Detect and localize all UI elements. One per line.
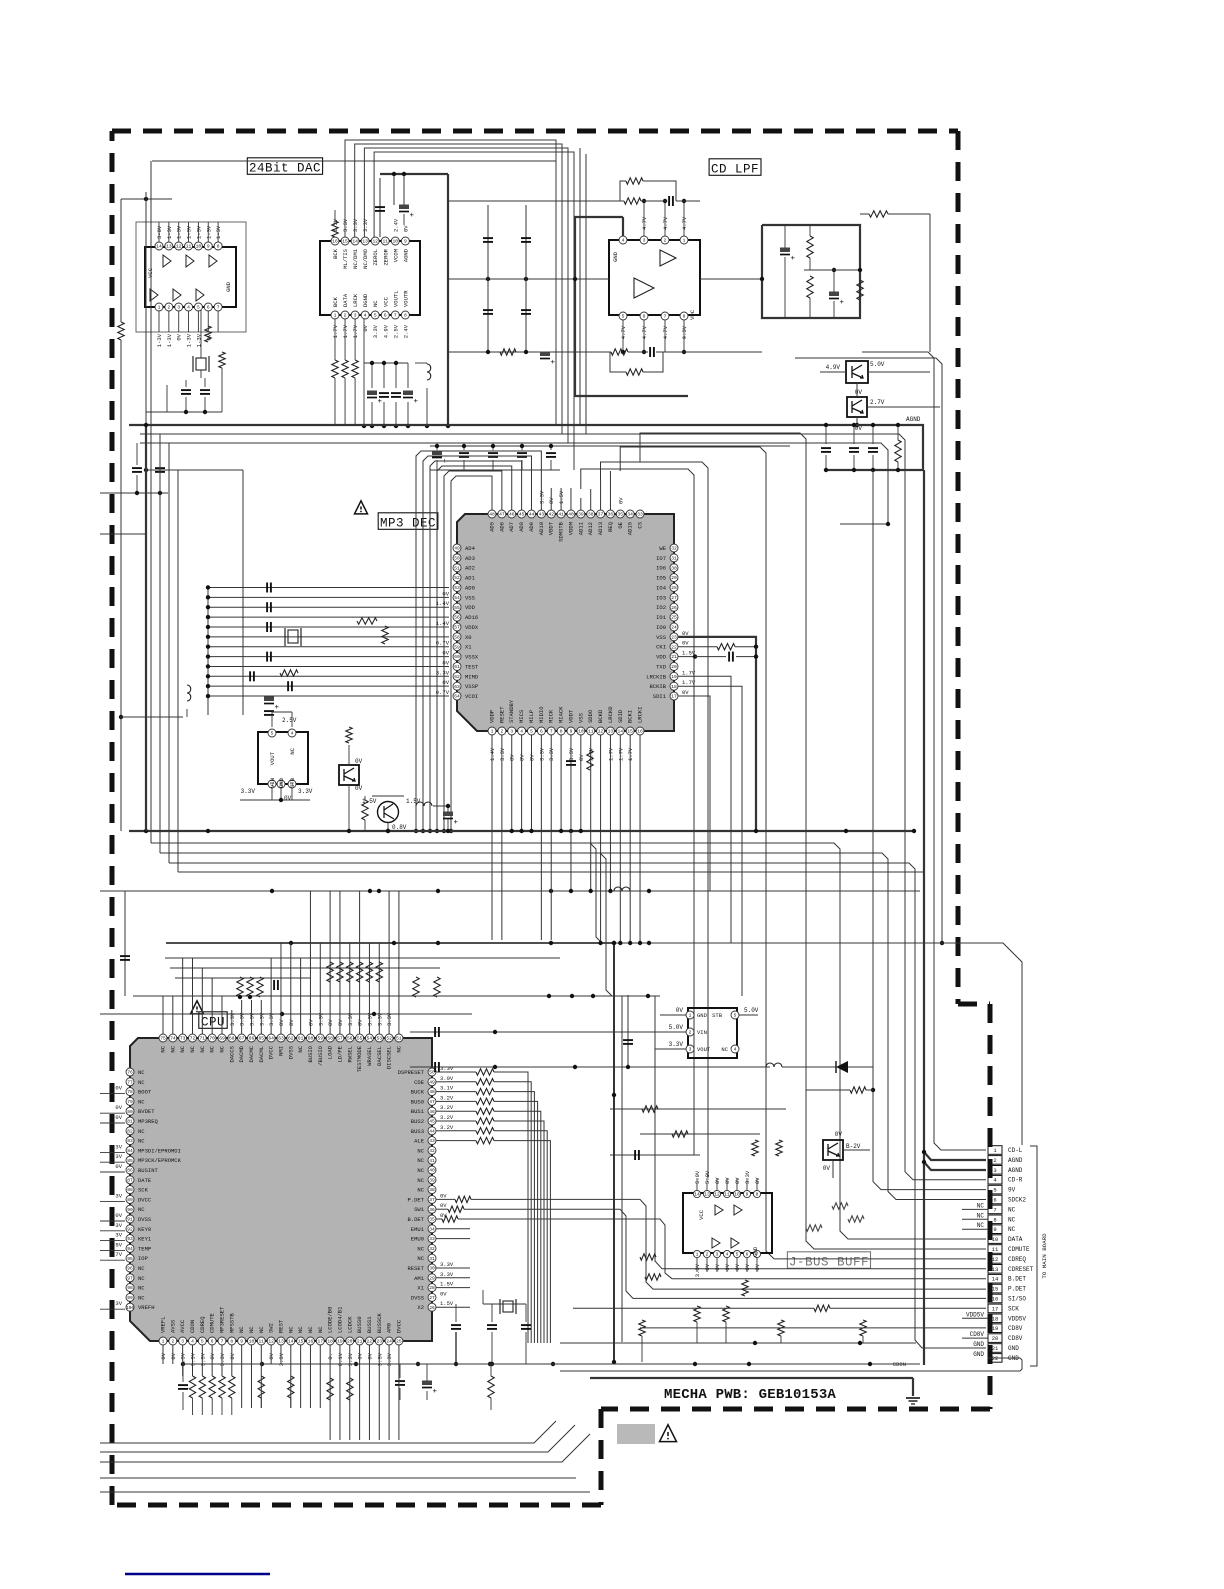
svg-text:5: 5 xyxy=(201,1339,204,1345)
svg-text:0.7V: 0.7V xyxy=(436,640,450,647)
svg-text:AD16: AD16 xyxy=(465,614,478,621)
svg-text:3V: 3V xyxy=(115,1300,122,1307)
svg-text:27: 27 xyxy=(429,1295,435,1301)
svg-text:37: 37 xyxy=(598,512,604,518)
svg-text:DACSEL: DACSEL xyxy=(376,1046,383,1066)
svg-text:IO0: IO0 xyxy=(656,624,666,631)
svg-text:AGND: AGND xyxy=(402,248,409,262)
svg-text:3.3V: 3.3V xyxy=(694,1263,701,1277)
svg-text:AD4: AD4 xyxy=(465,545,476,552)
svg-text:31: 31 xyxy=(671,555,677,561)
svg-text:54: 54 xyxy=(454,595,460,601)
svg-text:5: 5 xyxy=(530,729,533,735)
svg-text:1-3V: 1-3V xyxy=(205,225,212,239)
svg-text:5.0V: 5.0V xyxy=(669,1024,684,1031)
svg-text:DVCC: DVCC xyxy=(395,1319,402,1333)
svg-text:16: 16 xyxy=(308,1339,314,1345)
svg-text:NC: NC xyxy=(179,1045,186,1052)
svg-text:TEMP: TEMP xyxy=(138,1245,151,1252)
svg-text:3-0V: 3-0V xyxy=(156,225,163,239)
svg-text:AD11: AD11 xyxy=(577,521,584,535)
svg-text:ZEROR: ZEROR xyxy=(382,248,389,265)
svg-text:49: 49 xyxy=(429,1079,435,1085)
svg-text:21: 21 xyxy=(357,1339,363,1345)
svg-text:5: 5 xyxy=(374,313,377,319)
svg-text:4.9V: 4.9V xyxy=(382,324,389,338)
svg-text:0V: 0V xyxy=(682,689,689,696)
svg-text:6: 6 xyxy=(211,1339,214,1345)
svg-text:63: 63 xyxy=(278,1036,284,1042)
svg-text:VDDM: VDDM xyxy=(567,522,574,535)
svg-text:VCC: VCC xyxy=(698,1209,705,1220)
svg-text:20: 20 xyxy=(347,1339,353,1345)
svg-text:GND: GND xyxy=(973,1341,984,1348)
svg-text:AD3: AD3 xyxy=(465,555,475,562)
svg-text:13: 13 xyxy=(704,1192,710,1198)
svg-text:1.5V: 1.5V xyxy=(406,798,421,805)
svg-text:VIN: VIN xyxy=(697,1029,707,1036)
svg-text:SCK: SCK xyxy=(1008,1305,1019,1312)
svg-text:20: 20 xyxy=(671,664,677,670)
svg-text:VDDX: VDDX xyxy=(465,624,479,631)
svg-text:GND: GND xyxy=(697,1012,708,1019)
svg-text:0V: 0V xyxy=(115,1104,122,1111)
svg-text:0V: 0V xyxy=(835,1131,843,1138)
svg-text:44: 44 xyxy=(429,1128,435,1134)
svg-text:28: 28 xyxy=(671,585,677,591)
svg-text:22: 22 xyxy=(367,1339,373,1345)
svg-text:CDREQ: CDREQ xyxy=(199,1316,206,1333)
svg-text:1.7V: 1.7V xyxy=(342,324,349,338)
svg-text:3.0V: 3.0V xyxy=(440,1075,454,1082)
svg-text:10: 10 xyxy=(249,1339,255,1345)
svg-text:3V: 3V xyxy=(115,1192,122,1199)
svg-text:12: 12 xyxy=(372,239,378,245)
svg-text:75: 75 xyxy=(160,1036,166,1042)
svg-text:0V: 0V xyxy=(754,1177,761,1184)
svg-text:VDD5V: VDD5V xyxy=(966,1311,984,1318)
svg-text:NC: NC xyxy=(138,1079,145,1086)
svg-text:3.3V: 3.3V xyxy=(440,1271,454,1278)
svg-text:66: 66 xyxy=(249,1036,255,1042)
svg-text:31: 31 xyxy=(429,1256,435,1262)
svg-text:CDON: CDON xyxy=(189,1320,196,1333)
svg-text:46: 46 xyxy=(429,1109,435,1115)
svg-text:NC: NC xyxy=(1008,1226,1016,1233)
svg-text:CDREQ: CDREQ xyxy=(1008,1256,1026,1263)
svg-text:12: 12 xyxy=(992,1256,999,1263)
svg-text:GND: GND xyxy=(278,777,285,788)
svg-text:59: 59 xyxy=(318,1036,324,1042)
svg-text:42: 42 xyxy=(429,1148,435,1154)
svg-text:9: 9 xyxy=(207,244,210,250)
svg-text:4: 4 xyxy=(520,729,523,735)
svg-text:NC: NC xyxy=(138,1128,145,1135)
svg-text:0V: 0V xyxy=(682,630,689,637)
svg-text:0V: 0V xyxy=(724,1263,731,1270)
svg-text:DISCSEL: DISCSEL xyxy=(386,1046,393,1069)
svg-text:NC: NC xyxy=(417,1157,424,1164)
svg-text:3: 3 xyxy=(643,238,646,244)
svg-text:9: 9 xyxy=(404,239,407,245)
svg-text:0V: 0V xyxy=(442,650,449,657)
svg-text:BUSSCK: BUSSCK xyxy=(376,1312,383,1333)
svg-text:NC: NC xyxy=(307,1326,314,1333)
svg-text:14: 14 xyxy=(618,729,624,735)
svg-text:+: + xyxy=(791,255,796,263)
svg-text:NC: NC xyxy=(138,1275,145,1282)
svg-text:KEY0: KEY0 xyxy=(138,1226,151,1233)
svg-text:KEY1: KEY1 xyxy=(138,1236,152,1243)
svg-text:0V: 0V xyxy=(617,497,624,504)
svg-text:BVDET: BVDET xyxy=(138,1108,155,1115)
svg-text:CD8V: CD8V xyxy=(970,1331,985,1338)
svg-text:NC: NC xyxy=(189,1045,196,1052)
svg-text:0V: 0V xyxy=(355,785,363,792)
svg-text:61: 61 xyxy=(298,1036,304,1042)
svg-text:67: 67 xyxy=(239,1036,245,1042)
svg-text:58: 58 xyxy=(327,1036,333,1042)
svg-text:GND: GND xyxy=(1008,1345,1019,1352)
svg-text:82: 82 xyxy=(127,1128,133,1134)
svg-text:21: 21 xyxy=(671,654,677,660)
svg-text:3: 3 xyxy=(181,1339,184,1345)
svg-text:8: 8 xyxy=(683,314,686,320)
svg-text:55: 55 xyxy=(357,1036,363,1042)
svg-text:AVCC: AVCC xyxy=(179,1319,186,1333)
svg-text:83: 83 xyxy=(127,1138,133,1144)
svg-text:VDDT: VDDT xyxy=(548,521,555,535)
svg-text:17: 17 xyxy=(671,694,677,700)
svg-text:SI/SO: SI/SO xyxy=(1008,1296,1026,1303)
svg-text:NC: NC xyxy=(977,1212,985,1219)
svg-text:9: 9 xyxy=(570,729,573,735)
svg-text:VDD: VDD xyxy=(656,654,667,661)
svg-text:2.4V: 2.4V xyxy=(402,324,409,338)
svg-text:24: 24 xyxy=(671,625,677,631)
svg-text:1: 1 xyxy=(162,1339,165,1345)
svg-text:BUS2: BUS2 xyxy=(411,1118,424,1125)
svg-text:IOP: IOP xyxy=(138,1255,148,1262)
svg-text:9: 9 xyxy=(993,1226,996,1233)
svg-text:23: 23 xyxy=(671,634,677,640)
svg-text:VSS: VSS xyxy=(656,634,667,641)
svg-text:45: 45 xyxy=(519,512,525,518)
svg-text:NC: NC xyxy=(199,1045,206,1052)
svg-text:6: 6 xyxy=(746,1252,749,1258)
svg-text:69: 69 xyxy=(219,1036,225,1042)
svg-text:2: 2 xyxy=(706,1252,709,1258)
svg-text:3.3V: 3.3V xyxy=(362,218,369,232)
svg-text:DSPRESET: DSPRESET xyxy=(398,1069,425,1076)
svg-text:AD5: AD5 xyxy=(489,522,496,532)
svg-text:CDMUTE: CDMUTE xyxy=(1008,1246,1030,1253)
svg-text:58: 58 xyxy=(454,634,460,640)
svg-text:1: 1 xyxy=(683,238,686,244)
svg-text:VCOM: VCOM xyxy=(392,249,399,262)
svg-text:2: 2 xyxy=(344,313,347,319)
svg-text:0V: 0V xyxy=(284,795,292,802)
svg-text:11: 11 xyxy=(724,1192,730,1198)
svg-text:8: 8 xyxy=(756,1192,759,1198)
svg-text:13: 13 xyxy=(278,1339,284,1345)
svg-text:LCDCK: LCDCK xyxy=(346,1316,353,1333)
svg-text:BUSS0: BUSS0 xyxy=(356,1316,363,1333)
svg-text:DACMC: DACMC xyxy=(248,1045,255,1062)
svg-text:NC: NC xyxy=(248,1326,255,1333)
svg-text:0V: 0V xyxy=(176,333,183,340)
svg-text:49: 49 xyxy=(454,546,460,552)
svg-text:NC: NC xyxy=(417,1187,424,1194)
svg-text:SDDO: SDDO xyxy=(587,709,594,723)
svg-text:50: 50 xyxy=(429,1070,435,1076)
svg-text:3: 3 xyxy=(716,1252,719,1258)
svg-text:3: 3 xyxy=(993,1167,996,1174)
svg-text:IO7: IO7 xyxy=(656,555,666,562)
svg-text:13: 13 xyxy=(166,244,172,250)
svg-text:NC: NC xyxy=(977,1202,985,1209)
svg-text:AD7: AD7 xyxy=(508,522,515,532)
svg-text:GND: GND xyxy=(225,281,232,292)
svg-text:CD-R: CD-R xyxy=(1008,1177,1023,1184)
svg-text:4.7V: 4.7V xyxy=(662,325,669,339)
svg-text:70: 70 xyxy=(209,1036,215,1042)
svg-text:56: 56 xyxy=(347,1036,353,1042)
svg-text:57: 57 xyxy=(454,625,460,631)
svg-text:2.4V: 2.4V xyxy=(392,218,399,232)
svg-text:WRASEL: WRASEL xyxy=(366,1046,373,1066)
svg-text:VSSX: VSSX xyxy=(465,654,479,661)
svg-text:1: 1 xyxy=(696,1252,699,1258)
svg-text:92: 92 xyxy=(127,1226,133,1232)
svg-text:7: 7 xyxy=(550,729,553,735)
svg-text:47: 47 xyxy=(429,1099,435,1105)
svg-text:SW2: SW2 xyxy=(268,1323,275,1333)
svg-text:AD10: AD10 xyxy=(538,522,545,535)
svg-text:2: 2 xyxy=(664,238,667,244)
svg-text:VOUT: VOUT xyxy=(269,751,276,765)
svg-text:0V: 0V xyxy=(355,758,363,765)
svg-text:10: 10 xyxy=(734,1192,740,1198)
svg-text:MIACK: MIACK xyxy=(558,706,565,723)
svg-text:40: 40 xyxy=(568,512,574,518)
svg-text:33: 33 xyxy=(429,1236,435,1242)
svg-text:+: + xyxy=(840,299,845,307)
svg-text:AD9: AD9 xyxy=(528,522,535,532)
svg-text:80: 80 xyxy=(127,1109,133,1115)
svg-text:6: 6 xyxy=(540,729,543,735)
svg-text:1: 1 xyxy=(491,729,494,735)
svg-text:NC: NC xyxy=(138,1265,145,1272)
svg-text:72: 72 xyxy=(190,1036,196,1042)
svg-text:0V: 0V xyxy=(734,1177,741,1184)
svg-text:GND: GND xyxy=(973,1351,984,1358)
svg-text:5: 5 xyxy=(736,1252,739,1258)
svg-text:57: 57 xyxy=(337,1036,343,1042)
svg-text:DVCC: DVCC xyxy=(268,1045,275,1059)
svg-text:BUSINT: BUSINT xyxy=(138,1167,159,1174)
svg-text:4: 4 xyxy=(187,305,190,311)
svg-text:+: + xyxy=(443,458,448,466)
svg-text:71: 71 xyxy=(200,1036,206,1042)
svg-text:NC: NC xyxy=(395,1045,402,1052)
svg-text:30: 30 xyxy=(671,565,677,571)
svg-text:38: 38 xyxy=(588,512,594,518)
svg-text:NC: NC xyxy=(977,1222,985,1229)
svg-text:32: 32 xyxy=(671,546,677,552)
svg-text:54: 54 xyxy=(367,1036,373,1042)
svg-text:3: 3 xyxy=(354,313,357,319)
svg-text:26: 26 xyxy=(429,1305,435,1311)
svg-text:19: 19 xyxy=(992,1325,999,1332)
svg-text:3V: 3V xyxy=(115,1222,122,1229)
svg-text:40: 40 xyxy=(429,1168,435,1174)
svg-text:P.DET: P.DET xyxy=(1008,1286,1026,1293)
svg-text:NC: NC xyxy=(209,1045,216,1052)
svg-text:5: 5 xyxy=(734,1013,737,1019)
svg-text:3.2V: 3.2V xyxy=(440,1094,454,1101)
svg-text:/BUSIO: /BUSIO xyxy=(317,1045,324,1066)
svg-text:78: 78 xyxy=(127,1089,133,1095)
svg-text:0V: 0V xyxy=(704,1263,711,1270)
svg-text:34: 34 xyxy=(627,512,633,518)
svg-text:AM1: AM1 xyxy=(414,1275,425,1282)
svg-text:1-3V: 1-3V xyxy=(176,225,183,239)
svg-text:29: 29 xyxy=(429,1275,435,1281)
svg-text:STB: STB xyxy=(712,1012,723,1019)
svg-text:61: 61 xyxy=(454,664,460,670)
svg-text:CDMUTE: CDMUTE xyxy=(209,1312,216,1333)
svg-text:24: 24 xyxy=(386,1339,392,1345)
svg-text:38: 38 xyxy=(429,1187,435,1193)
svg-text:MP3DI/EPROMDI: MP3DI/EPROMDI xyxy=(138,1147,181,1154)
svg-text:18: 18 xyxy=(327,1339,333,1345)
svg-text:36: 36 xyxy=(608,512,614,518)
svg-text:7V: 7V xyxy=(115,1251,122,1258)
svg-text:IO1: IO1 xyxy=(656,614,667,621)
svg-text:TXD: TXD xyxy=(656,663,667,670)
svg-text:MICS: MICS xyxy=(518,709,525,723)
svg-text:CD-L: CD-L xyxy=(1008,1147,1023,1154)
svg-text:EMU1: EMU1 xyxy=(411,1226,425,1233)
svg-text:21: 21 xyxy=(992,1345,999,1352)
svg-text:NC: NC xyxy=(169,1045,176,1052)
svg-text:NC: NC xyxy=(238,1326,245,1333)
svg-text:46: 46 xyxy=(509,512,515,518)
svg-text:1.4V: 1.4V xyxy=(436,620,450,627)
svg-text:41: 41 xyxy=(558,512,564,518)
svg-text:LCODE/B0: LCODE/B0 xyxy=(327,1307,334,1333)
svg-text:9.3V: 9.3V xyxy=(681,325,688,339)
svg-text:NC: NC xyxy=(417,1245,424,1252)
svg-text:100: 100 xyxy=(126,1305,135,1311)
svg-text:73: 73 xyxy=(180,1036,186,1042)
svg-text:CDE: CDE xyxy=(414,1079,425,1086)
svg-text:LRCKI: LRCKI xyxy=(637,706,644,723)
svg-text:9: 9 xyxy=(746,1192,749,1198)
svg-text:X0: X0 xyxy=(465,634,472,641)
svg-text:6: 6 xyxy=(384,313,387,319)
svg-text:23: 23 xyxy=(377,1339,383,1345)
svg-text:53: 53 xyxy=(377,1036,383,1042)
svg-text:NC: NC xyxy=(1008,1216,1016,1223)
svg-text:88: 88 xyxy=(127,1187,133,1193)
svg-text:CKI: CKI xyxy=(656,644,666,651)
svg-text:NC: NC xyxy=(417,1255,424,1262)
svg-text:7: 7 xyxy=(217,305,220,311)
svg-text:3.3V: 3.3V xyxy=(342,218,349,232)
svg-text:NC/DM1: NC/DM1 xyxy=(352,248,359,269)
svg-text:LCOD4/B1: LCOD4/B1 xyxy=(336,1306,343,1333)
svg-text:50: 50 xyxy=(454,555,460,561)
svg-text:53: 53 xyxy=(454,585,460,591)
svg-text:NC: NC xyxy=(138,1285,145,1292)
svg-text:VSS: VSS xyxy=(577,712,584,723)
svg-text:AD13: AD13 xyxy=(597,522,604,535)
svg-text:VCC: VCC xyxy=(382,296,389,307)
svg-text:NC: NC xyxy=(721,1046,728,1053)
svg-text:2: 2 xyxy=(689,1030,692,1036)
svg-text:0V: 0V xyxy=(734,1263,741,1270)
svg-text:AD15: AD15 xyxy=(627,522,634,535)
svg-text:VREFH: VREFH xyxy=(138,1304,155,1311)
svg-text:VCOI: VCOI xyxy=(465,693,478,700)
svg-text:13: 13 xyxy=(608,729,614,735)
svg-text:MIDIO: MIDIO xyxy=(538,706,545,723)
svg-text:59: 59 xyxy=(454,644,460,650)
svg-text:45: 45 xyxy=(429,1119,435,1125)
svg-text:3.3V: 3.3V xyxy=(669,1041,684,1048)
svg-text:3.3V: 3.3V xyxy=(298,788,313,795)
svg-text:81: 81 xyxy=(127,1119,133,1125)
svg-text:60: 60 xyxy=(454,654,460,660)
svg-text:42: 42 xyxy=(548,512,554,518)
svg-text:0V: 0V xyxy=(855,389,863,396)
svg-text:3V: 3V xyxy=(115,1143,122,1150)
svg-text:WE: WE xyxy=(659,545,666,552)
svg-text:MPSSTB: MPSSTB xyxy=(228,1312,235,1333)
svg-text:4: 4 xyxy=(364,313,367,319)
svg-text:60: 60 xyxy=(308,1036,314,1042)
svg-text:J-BUS BUFF: J-BUS BUFF xyxy=(789,1256,869,1270)
svg-text:62: 62 xyxy=(288,1036,294,1042)
svg-text:93: 93 xyxy=(127,1236,133,1242)
svg-text:NC: NC xyxy=(1008,1206,1016,1213)
svg-text:LOAD: LOAD xyxy=(327,1045,334,1059)
svg-text:3.2V: 3.2V xyxy=(440,1114,454,1121)
svg-text:97: 97 xyxy=(127,1275,133,1281)
svg-text:5: 5 xyxy=(993,1187,996,1194)
svg-text:52: 52 xyxy=(386,1036,392,1042)
svg-text:0V: 0V xyxy=(442,590,449,597)
svg-text:NC: NC xyxy=(297,1045,304,1052)
svg-text:0V: 0V xyxy=(676,1007,684,1014)
svg-text:28: 28 xyxy=(429,1285,435,1291)
svg-text:3: 3 xyxy=(510,729,513,735)
svg-text:3.3V: 3.3V xyxy=(440,1065,454,1072)
svg-text:0V: 0V xyxy=(754,1263,761,1270)
svg-text:27: 27 xyxy=(671,595,677,601)
svg-text:4.7V: 4.7V xyxy=(681,216,688,230)
svg-text:REQ: REQ xyxy=(607,521,614,532)
svg-text:EMU0: EMU0 xyxy=(411,1236,424,1243)
svg-text:74: 74 xyxy=(170,1036,176,1042)
svg-text:VOUT: VOUT xyxy=(697,1046,711,1053)
svg-text:0V: 0V xyxy=(823,1165,831,1172)
svg-text:18: 18 xyxy=(992,1315,999,1322)
svg-text:84: 84 xyxy=(127,1148,133,1154)
svg-text:DACMD: DACMD xyxy=(238,1045,245,1062)
